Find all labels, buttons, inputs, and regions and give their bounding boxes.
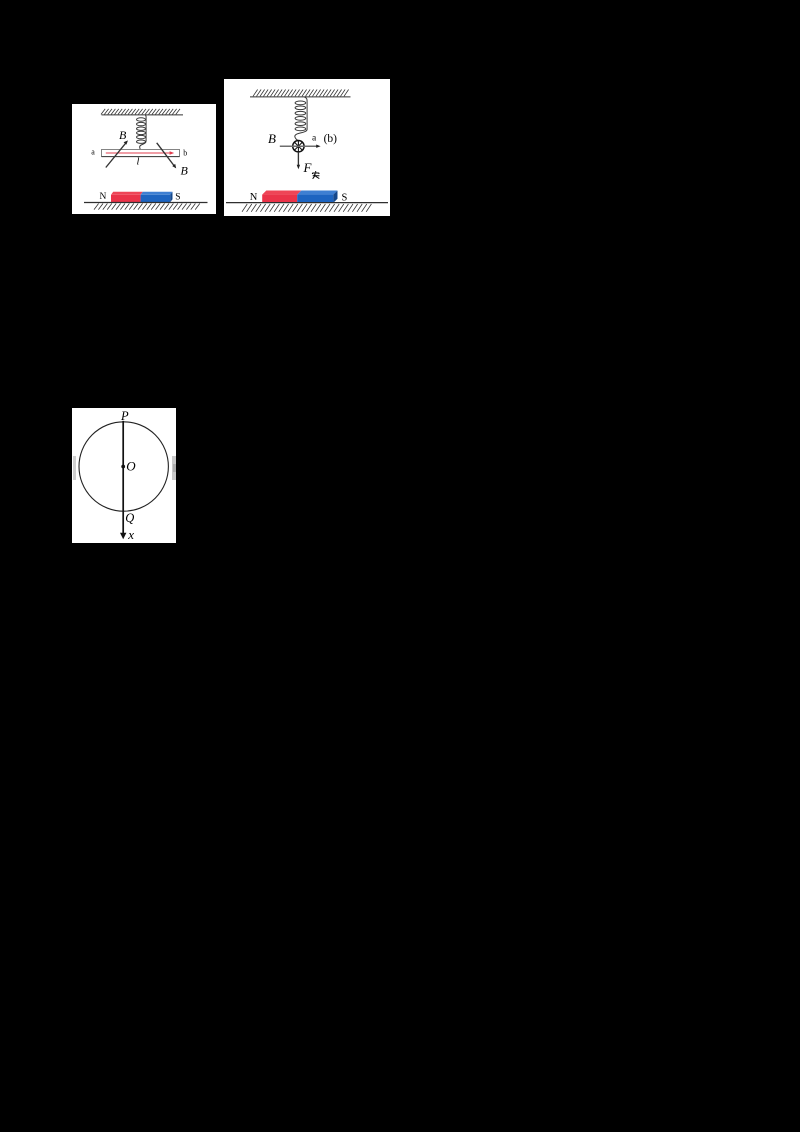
svg-text:N: N xyxy=(250,192,258,203)
svg-text:O: O xyxy=(127,458,137,473)
svg-text:x: x xyxy=(127,526,134,541)
svg-text:l: l xyxy=(136,156,139,167)
svg-text:S: S xyxy=(341,192,347,203)
svg-text:F: F xyxy=(302,160,312,175)
svg-text:B: B xyxy=(180,163,188,177)
svg-text:P: P xyxy=(120,409,129,423)
svg-text:a: a xyxy=(91,147,95,156)
svg-text:a: a xyxy=(312,133,317,143)
svg-text:Q: Q xyxy=(126,510,135,524)
svg-text:N: N xyxy=(99,192,106,202)
svg-text:S: S xyxy=(175,192,180,202)
svg-text:B: B xyxy=(268,131,276,146)
svg-text:B: B xyxy=(119,128,127,142)
svg-text:(b): (b) xyxy=(323,133,337,145)
svg-text:b: b xyxy=(183,148,187,157)
